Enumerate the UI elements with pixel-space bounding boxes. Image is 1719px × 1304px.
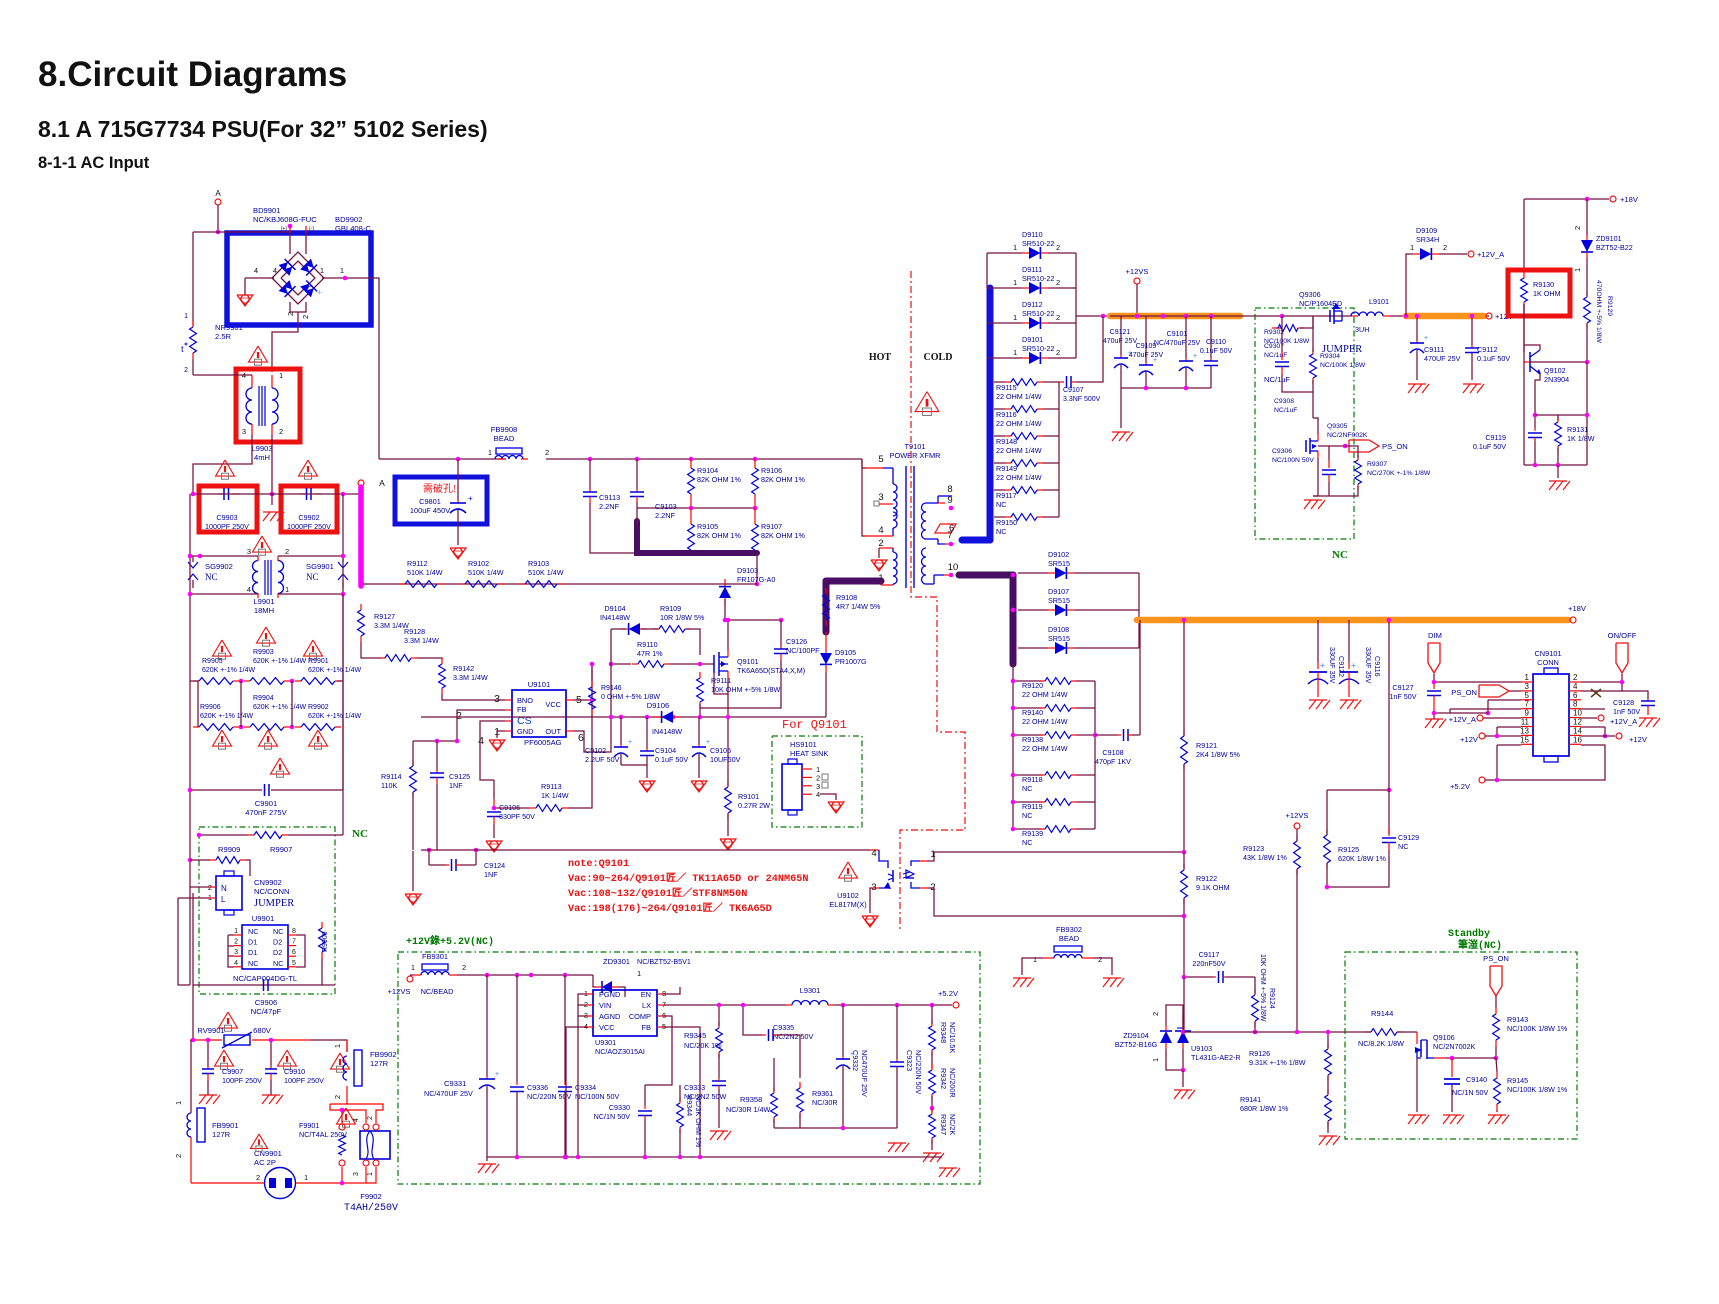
svg-text:4: 4 — [273, 266, 277, 275]
svg-text:CN9902: CN9902 — [254, 878, 282, 887]
wire D9107 row — [1018, 609, 1048, 611]
transistor Q9306 — [1330, 303, 1342, 324]
wire purple to D9103 row — [756, 553, 758, 584]
svg-text:+: + — [1424, 335, 1428, 342]
wire FB9901 — [192, 1040, 194, 1108]
label C9308 — [1274, 398, 1297, 414]
wire C9106 gnd — [493, 824, 495, 838]
ground C9116 — [1340, 700, 1361, 709]
svg-text:U9102: U9102 — [837, 891, 859, 900]
wire left rail X-row to grid — [189, 494, 191, 985]
pin CN9101 15 — [1521, 743, 1533, 745]
svg-text:PS_ON: PS_ON — [1483, 954, 1509, 963]
svg-text:POWER XFMR: POWER XFMR — [890, 451, 941, 460]
svg-text:510K 1/4W: 510K 1/4W — [468, 568, 504, 577]
ground C9127 — [1425, 719, 1446, 728]
label D9109 — [1416, 226, 1439, 244]
highlight purple bus pin10 — [959, 572, 1013, 579]
connector PS_ON arrow — [1479, 685, 1509, 697]
svg-text:470pF 1KV: 470pF 1KV — [1095, 757, 1131, 766]
svg-text:10K OHM +-5% 1/8W: 10K OHM +-5% 1/8W — [1259, 954, 1266, 1022]
svg-text:R9140: R9140 — [1022, 708, 1043, 717]
varistor RV9901 — [190, 1032, 310, 1048]
svg-text:2: 2 — [1098, 955, 1102, 964]
resistor R9108 on purple — [823, 588, 830, 626]
pin CN9101 16 — [1569, 743, 1581, 745]
wire C9129 rail top — [1388, 620, 1390, 834]
pin U9101 1 — [505, 730, 512, 732]
label R9150 — [996, 518, 1017, 536]
svg-text:SG9902: SG9902 — [205, 562, 233, 571]
wire R9139 stub — [1013, 828, 1042, 830]
svg-text:NC: NC — [273, 959, 283, 968]
wire CN9902 pin1 rail — [178, 898, 190, 985]
capacitor C9907 — [202, 1040, 214, 1080]
svg-text:BZT52-B22: BZT52-B22 — [1596, 243, 1633, 252]
label C9108 — [1095, 748, 1131, 766]
inductor L9903 — [252, 375, 272, 435]
wire pin1 to purple — [880, 581, 882, 585]
label R9111 — [711, 676, 781, 694]
resistor R9115 — [1005, 379, 1043, 386]
resistor R9908 — [319, 922, 326, 958]
resistor R9113 — [530, 805, 568, 812]
wire R9125 top — [1326, 790, 1328, 835]
wire ZD9104 top — [1165, 977, 1167, 1013]
capacitor C9102 — [614, 717, 632, 765]
svg-text:22 OHM 1/4W: 22 OHM 1/4W — [1022, 690, 1068, 699]
svg-text:1: 1 — [304, 1173, 308, 1182]
ground C9333 — [710, 1131, 731, 1140]
inductor L9901 — [253, 561, 259, 594]
pin U9101 4 — [505, 720, 512, 722]
svg-text:1: 1 — [1033, 955, 1037, 964]
svg-text:NC: NC — [1022, 838, 1032, 847]
label R9905 — [202, 658, 256, 674]
svg-text:FB9302: FB9302 — [1056, 925, 1082, 934]
svg-text:+18V: +18V — [1620, 195, 1639, 204]
warning symbol R9902 row — [309, 730, 328, 749]
wire R9101 top — [727, 717, 729, 786]
svg-text:R9902: R9902 — [308, 704, 329, 711]
svg-text:4: 4 — [1573, 682, 1578, 691]
svg-text:C9332: C9332 — [851, 1050, 860, 1071]
connector CN9101 — [1533, 674, 1569, 756]
wire bus gnd left — [486, 1157, 488, 1161]
resistor R9103 — [519, 581, 563, 588]
svg-text:ZD9104: ZD9104 — [1123, 1031, 1149, 1040]
svg-text:5: 5 — [878, 454, 883, 465]
svg-text:127R: 127R — [370, 1059, 389, 1068]
svg-text:7: 7 — [947, 530, 952, 541]
pin U9301 5 — [657, 1026, 664, 1028]
svg-text:43K 1/8W 1%: 43K 1/8W 1% — [1243, 853, 1288, 862]
resistor R9116 — [1005, 406, 1043, 413]
connector PS_ON right — [1349, 440, 1379, 452]
resistor R9345 — [716, 1022, 723, 1058]
svg-text:1: 1 — [930, 849, 935, 860]
wire R9118 stub — [1013, 774, 1042, 776]
capacitor C9126 — [774, 620, 788, 660]
resistor R9906 — [193, 724, 239, 731]
wire R9150 right — [1043, 516, 1059, 518]
svg-text:R9112: R9112 — [407, 559, 428, 568]
wire PS_ON link — [1318, 445, 1345, 447]
svg-text:D2: D2 — [273, 948, 282, 957]
label FB9902 — [370, 1050, 397, 1068]
svg-text:SG9901: SG9901 — [306, 562, 334, 571]
pin CN9101 10 — [1569, 717, 1581, 719]
wire U9901 right pins rail — [296, 935, 305, 967]
resistor R9348 — [929, 1020, 936, 1056]
wire bridge minus down — [272, 312, 298, 372]
svg-text:C9801: C9801 — [419, 497, 441, 506]
label R9909 — [218, 845, 240, 854]
svg-text:C9128: C9128 — [1613, 698, 1634, 707]
svg-text:2: 2 — [1056, 348, 1060, 357]
svg-text:EL817M(X): EL817M(X) — [829, 900, 866, 909]
resistor R9120 — [1039, 678, 1077, 685]
svg-text:+12VS: +12VS — [1285, 811, 1308, 820]
label C9126 — [786, 637, 820, 655]
label R9125 — [1338, 845, 1387, 863]
ground NC box — [1304, 500, 1325, 509]
resistor R9146 — [589, 681, 596, 715]
wire opto pin2 bus — [927, 888, 1184, 916]
capacitor C9107 — [1059, 376, 1076, 388]
wire R9146 — [591, 664, 593, 681]
svg-text:8: 8 — [1573, 700, 1578, 709]
resistor R9114 — [410, 760, 417, 798]
resistor R9129 — [1584, 291, 1591, 329]
resistor R9903 — [244, 678, 290, 685]
wire R9304 — [1312, 316, 1314, 352]
svg-text:Q9305: Q9305 — [1327, 423, 1348, 430]
svg-text:A: A — [215, 189, 221, 198]
wire Q9106 drain bus — [1434, 1057, 1445, 1059]
wire D9110 row — [987, 252, 1022, 254]
svg-text:NC: NC — [248, 959, 258, 968]
svg-text:C9140: C9140 — [1466, 1075, 1487, 1084]
svg-text:+12VS: +12VS — [387, 987, 410, 996]
svg-text:NC/BZT52-B5V1: NC/BZT52-B5V1 — [637, 957, 691, 966]
svg-text:127R: 127R — [212, 1130, 231, 1139]
svg-text:GND: GND — [517, 727, 533, 736]
svg-text:TK6A65D(STA4,X,M): TK6A65D(STA4,X,M) — [737, 666, 805, 675]
wire pin8 — [1581, 708, 1605, 710]
warning symbol above C9902 — [299, 460, 318, 479]
svg-text:R9114: R9114 — [381, 772, 402, 781]
wire FB — [664, 1027, 700, 1037]
svg-text:620K +-1% 1/4W: 620K +-1% 1/4W — [202, 667, 256, 674]
label R9113 — [541, 782, 569, 800]
pin CN9101 3 — [1521, 690, 1533, 692]
svg-text:1: 1 — [637, 969, 641, 978]
wire R9126 top — [1327, 1032, 1329, 1048]
capacitor C9108 — [1095, 729, 1140, 741]
svg-text:D9112: D9112 — [1022, 300, 1043, 309]
svg-text:R9141: R9141 — [1240, 1095, 1261, 1104]
diode D9112 — [1022, 317, 1048, 329]
resistor R9117 — [1005, 487, 1043, 494]
pin U9901 7 — [288, 945, 296, 947]
capacitor C9901 — [190, 784, 343, 796]
svg-text:R9124: R9124 — [1268, 988, 1275, 1009]
svg-text:R9903: R9903 — [253, 649, 274, 656]
ground C9112 — [1463, 384, 1484, 393]
svg-text:NC/AOZ3015AI: NC/AOZ3015AI — [595, 1047, 645, 1056]
svg-text:10: 10 — [1573, 709, 1582, 718]
svg-text:R9128: R9128 — [404, 627, 425, 636]
svg-text:R9118: R9118 — [1022, 775, 1043, 784]
svg-text:510K 1/4W: 510K 1/4W — [407, 568, 443, 577]
capacitor C9104 — [640, 717, 654, 778]
svg-text:620K +-1% 1/4W: 620K +-1% 1/4W — [308, 667, 362, 674]
resistor R9107 — [752, 524, 759, 550]
svg-text:4: 4 — [247, 585, 251, 594]
wire D9103 node — [725, 583, 757, 585]
svg-text:1: 1 — [1410, 243, 1414, 252]
wire row1-row2 columns — [240, 681, 242, 727]
label Q9306 — [1299, 290, 1342, 308]
svg-text:NC: NC — [205, 572, 218, 582]
fuse F9901 terminals — [339, 1124, 345, 1130]
svg-text:C9127: C9127 — [1392, 683, 1413, 692]
svg-text:14: 14 — [1573, 726, 1582, 735]
svg-text:R9139: R9139 — [1022, 829, 1043, 838]
wire R9129 — [1586, 258, 1588, 296]
transformer secondary winding — [922, 503, 926, 539]
svg-text:VCC: VCC — [599, 1023, 615, 1032]
label R9146 — [601, 685, 660, 701]
svg-text:筆潂(NC): 筆潂(NC) — [1458, 938, 1502, 952]
svg-text:R9342: R9342 — [939, 1068, 948, 1089]
svg-text:22 OHM 1/4W: 22 OHM 1/4W — [996, 446, 1042, 455]
svg-text:22 OHM 1/4W: 22 OHM 1/4W — [1022, 717, 1068, 726]
capacitor C9122 — [1308, 620, 1328, 697]
wire bottom bus 1 — [719, 1127, 800, 1129]
svg-text:C9901: C9901 — [255, 799, 277, 808]
label R9307 — [1367, 461, 1431, 477]
capacitor C9910 — [265, 1040, 277, 1080]
svg-text:NC/2N7002K: NC/2N7002K — [1433, 1042, 1476, 1051]
label R9140 — [1022, 708, 1068, 726]
wire mid bottom bus — [800, 1127, 897, 1129]
wire U9301 left rail down — [577, 1016, 579, 1157]
svg-text:NC/100N 50V: NC/100N 50V — [1272, 457, 1314, 464]
svg-text:R9121: R9121 — [1196, 741, 1217, 750]
wire R9120 right rail — [1094, 681, 1096, 829]
svg-text:1: 1 — [1013, 313, 1017, 322]
label R9304 — [1320, 353, 1366, 369]
label R9139 — [1022, 829, 1043, 847]
svg-text:4: 4 — [816, 790, 820, 799]
wire R9116 right — [1043, 408, 1059, 410]
wire bridge plus down right rail — [352, 278, 379, 459]
wire gnd rail — [1313, 495, 1318, 497]
svg-text:620K 1/8W 1%: 620K 1/8W 1% — [1338, 854, 1387, 863]
label U9301 — [595, 1038, 645, 1056]
label D9110 — [1022, 230, 1054, 248]
label C9910 — [284, 1067, 324, 1085]
svg-text:T9101: T9101 — [905, 442, 926, 451]
wire R9123 — [1296, 829, 1298, 841]
svg-text:C9111: C9111 — [1424, 345, 1444, 354]
label R9907 — [270, 845, 292, 854]
wire R9347 bottom — [931, 1140, 933, 1150]
svg-text:R9905: R9905 — [202, 658, 223, 665]
svg-text:10UF50V: 10UF50V — [710, 755, 741, 764]
ground R9145 — [1488, 1115, 1509, 1124]
label R9101 — [738, 792, 770, 810]
capacitor C9101 — [1179, 316, 1197, 388]
svg-text:C9108: C9108 — [1102, 748, 1123, 757]
ferrite bead FB9901 — [187, 1113, 191, 1137]
ground C9801 — [450, 548, 466, 559]
wire fuse tops — [330, 1104, 342, 1123]
svg-text:10R 1/8W 5%: 10R 1/8W 5% — [660, 613, 705, 622]
spark gap SG9901 — [338, 556, 348, 588]
svg-text:+12V: +12V — [1629, 735, 1648, 744]
terminal +12V_A — [1468, 251, 1474, 257]
svg-text:EN: EN — [641, 990, 651, 999]
label C9105 — [710, 746, 741, 764]
svg-text:L9301: L9301 — [800, 986, 821, 995]
svg-text:NC/CAP004DG-TL: NC/CAP004DG-TL — [233, 974, 297, 983]
pin U9901 5 — [288, 966, 296, 968]
svg-text:Vac:198(176)~264/Q9101匠／ TK6A6: Vac:198(176)~264/Q9101匠／ TK6A65D — [568, 901, 772, 915]
svg-text:VIN: VIN — [599, 1001, 611, 1010]
svg-text:COMP: COMP — [629, 1012, 651, 1021]
svg-text:9: 9 — [1525, 709, 1530, 718]
label R9116 — [996, 410, 1042, 428]
wire R9126 R9141 — [1327, 1076, 1329, 1094]
label F9902 — [360, 1192, 382, 1201]
label FB9901 — [212, 1121, 239, 1139]
capacitor C9110 — [1204, 316, 1218, 388]
pin U9101 3 — [505, 699, 512, 701]
red tap symbol — [935, 524, 956, 533]
resistor R9347 — [929, 1108, 936, 1144]
wire PS_ON pin3 — [1509, 690, 1521, 692]
pin CN9101 9 — [1521, 717, 1533, 719]
svg-text:1: 1 — [1525, 673, 1530, 682]
wire AC bottom left — [191, 1182, 264, 1184]
svg-text:1nF 50V: 1nF 50V — [1613, 707, 1640, 716]
ground U9102 — [862, 916, 878, 927]
svg-text:470uF 25V: 470uF 25V — [1103, 338, 1138, 345]
svg-text:82K OHM 1%: 82K OHM 1% — [761, 531, 806, 540]
wire C9330 top — [645, 1060, 672, 1085]
wire C9335 left — [743, 1005, 762, 1035]
label R9138 — [1022, 735, 1068, 753]
svg-text:NC/2NF002K: NC/2NF002K — [1327, 432, 1368, 439]
wire pin2 gnd — [878, 548, 880, 558]
svg-text:R9127: R9127 — [374, 612, 395, 621]
label R9142 — [453, 664, 488, 682]
transformer primary winding — [866, 467, 883, 469]
svg-text:BEAD: BEAD — [494, 434, 515, 443]
svg-text:N: N — [221, 884, 227, 893]
label R9105 — [697, 522, 742, 540]
svg-text:R9104: R9104 — [697, 466, 718, 475]
fuse F9902 — [360, 1131, 390, 1159]
label C9112 — [1477, 345, 1510, 363]
svg-text:NC: NC — [248, 927, 258, 936]
terminal +5.2V — [1479, 777, 1485, 783]
pin F9902 3 — [363, 1160, 369, 1166]
pin HS9101 1 — [802, 768, 812, 770]
label R9143 — [1507, 1015, 1568, 1033]
wire bridge pin4 — [252, 277, 274, 279]
svg-text:2: 2 — [256, 1173, 260, 1182]
ground HS9101 — [828, 802, 844, 813]
svg-text:330UF 35V: 330UF 35V — [1328, 647, 1337, 684]
svg-text:NC/8.2K 1/8W: NC/8.2K 1/8W — [1358, 1039, 1404, 1048]
svg-text:C9903: C9903 — [216, 513, 237, 522]
wire C9307 — [1281, 328, 1283, 352]
resistor R9118 — [1039, 772, 1077, 779]
capacitor C9906 — [263, 979, 268, 991]
svg-text:PS_ON: PS_ON — [1382, 442, 1408, 451]
resistor R9909 — [210, 857, 246, 864]
svg-text:2: 2 — [1151, 1012, 1160, 1016]
svg-text:Q9101: Q9101 — [737, 657, 759, 666]
svg-text:NC: NC — [273, 927, 283, 936]
wire L9901 top pins — [190, 555, 258, 557]
AC inlet CN9901 — [265, 1168, 296, 1199]
ground C9128 — [1639, 718, 1660, 727]
svg-text:R9129: R9129 — [1606, 296, 1613, 316]
ground R9347 — [923, 1153, 944, 1162]
svg-text:NC/30R: NC/30R — [812, 1098, 838, 1107]
svg-text:4: 4 — [254, 266, 258, 275]
svg-text:PR1007G: PR1007G — [835, 657, 867, 666]
label C9140 — [1466, 1075, 1487, 1084]
wire R9344 — [679, 1060, 681, 1101]
label R9904 — [253, 695, 307, 711]
svg-text:C9907: C9907 — [222, 1067, 243, 1076]
svg-text:NC/100K 1/8W: NC/100K 1/8W — [1320, 362, 1366, 369]
wire FB pin2 — [457, 710, 505, 741]
connector CN9902 — [216, 876, 242, 910]
svg-text:NC/20K 1%: NC/20K 1% — [684, 1041, 722, 1050]
wire R9130 down — [1523, 304, 1525, 352]
label C9335 — [773, 1023, 814, 1041]
svg-text:D9105: D9105 — [835, 648, 856, 657]
svg-text:1: 1 — [279, 371, 283, 380]
resistor R9344 — [677, 1097, 684, 1133]
svg-text:NC/100K 1/8W 1%: NC/100K 1/8W 1% — [1507, 1024, 1568, 1033]
label R9144 — [1371, 1009, 1393, 1018]
resistor R9127 — [358, 604, 365, 642]
svg-text:100PF 250V: 100PF 250V — [284, 1076, 324, 1085]
wire source down — [727, 694, 729, 717]
label D9105 — [835, 648, 867, 666]
svg-text:NC/1uF: NC/1uF — [1274, 407, 1297, 414]
wire C9306 — [1328, 446, 1330, 460]
resistor R9125 — [1324, 829, 1331, 869]
svg-text:C9125: C9125 — [449, 772, 470, 781]
highlight blue box around bridge BD9902 — [227, 233, 371, 325]
diode D9101 — [1022, 352, 1048, 364]
ground R9141 — [1319, 1136, 1340, 1145]
svg-text:0.1uF 50V: 0.1uF 50V — [1473, 442, 1506, 451]
wire R9114 C9125 bottoms — [412, 792, 414, 850]
svg-text:C9902: C9902 — [298, 513, 319, 522]
svg-text:R9142: R9142 — [453, 664, 474, 673]
resistor R9124 — [1252, 989, 1259, 1027]
